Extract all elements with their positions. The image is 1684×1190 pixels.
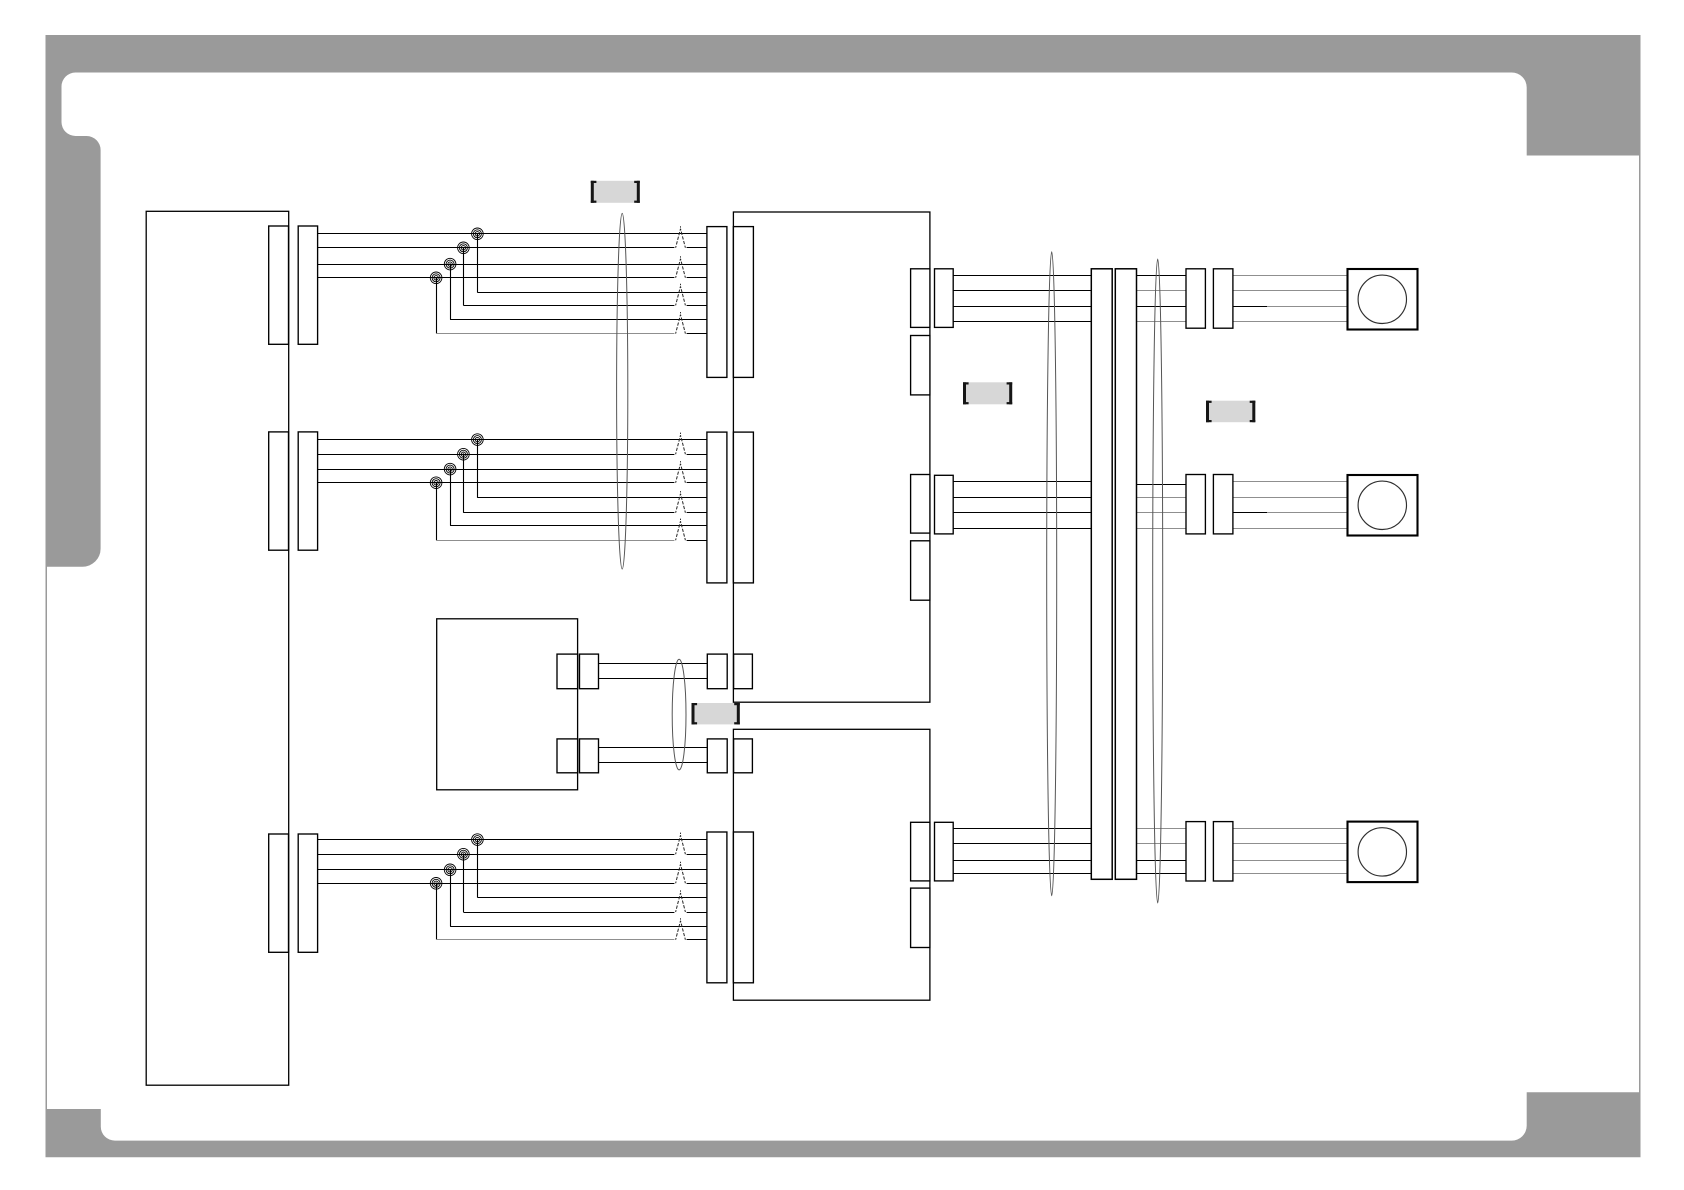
wire G1 branch drop 1 bbox=[477, 234, 479, 293]
connector R1-plug left bbox=[1186, 269, 1205, 328]
connector R2-plug right bbox=[1213, 475, 1233, 534]
connector G3A (board-side, left) bbox=[269, 834, 289, 952]
wire G1 branch drop 2 bbox=[463, 248, 465, 306]
wire R3 plug to unit row 1 bbox=[1233, 828, 1348, 830]
wire R1 bus to plug row 2 bbox=[1137, 290, 1187, 292]
wire R3 bus to plug row 3 bbox=[1137, 860, 1187, 862]
label placeholder P3 (mid-right) bbox=[1206, 401, 1255, 423]
label placeholder P4 (center) bbox=[692, 703, 740, 724]
twisted-pair mark 2 on G1 bbox=[676, 259, 686, 278]
wire G3 branch drop 1 bbox=[477, 840, 479, 898]
connector R3-plug right bbox=[1213, 822, 1233, 881]
wire R2 plug to unit row 4 bbox=[1233, 528, 1348, 530]
shield-braid coil symbol on G3 wire 2 bbox=[458, 848, 470, 860]
connector G1B (harness-side, left) bbox=[298, 226, 317, 344]
connector G1C (harness-side, right) bbox=[707, 227, 727, 378]
connector M5 on small board (lower) bbox=[557, 739, 578, 773]
wire G3 return row 1 bbox=[477, 897, 707, 899]
wire R1 to bus row 4 bbox=[953, 321, 1091, 323]
wire R2 plug to unit row 3 bbox=[1233, 512, 1267, 514]
connector G2A (board-side, left) bbox=[269, 432, 289, 550]
wire G3 row 2 bbox=[318, 854, 675, 856]
unit box with round element R3 bbox=[1348, 822, 1418, 883]
wire R2 plug to unit row 1 bbox=[1233, 481, 1348, 483]
wire R1 plug to unit row 4 bbox=[1233, 321, 1348, 323]
wire R1 plug to unit row 2 bbox=[1233, 290, 1348, 292]
wire G1 branch drop 3 bbox=[450, 264, 452, 320]
connector R3-edge inner bbox=[911, 822, 930, 881]
wire R3 to bus row 4 bbox=[953, 873, 1091, 875]
wire M upper pair line 1 bbox=[599, 663, 708, 665]
sub board lower right rectangle bbox=[733, 729, 930, 1000]
wire R2 bus to plug row 4 bbox=[1137, 528, 1187, 530]
wire G3 row 1 bbox=[318, 839, 707, 841]
wire G2 branch drop 4 bbox=[436, 483, 438, 541]
connector M2 harness side (upper) bbox=[580, 654, 599, 689]
wire R1 to bus row 1 bbox=[953, 275, 1091, 277]
wire G1 return row 3 bbox=[450, 319, 707, 321]
wire G2 branch drop 1 bbox=[477, 440, 479, 498]
connector R2-plug left bbox=[1186, 475, 1205, 534]
wire G2 row 3 bbox=[318, 469, 707, 471]
wire G2 row 1 bbox=[318, 439, 707, 441]
connector G2C (harness-side, right) bbox=[707, 432, 727, 583]
wire G2 return row 3 bbox=[450, 525, 707, 527]
wire R1 plug to unit row 3 bbox=[1233, 306, 1267, 308]
twisted-pair mark 1 on G2 bbox=[676, 435, 686, 454]
main board (left tall rectangle) bbox=[146, 211, 289, 1085]
vertical bus bar 2 bbox=[1115, 269, 1136, 880]
wire G2 return row 2 bbox=[463, 512, 674, 514]
wire R3 bus to plug row 4 bbox=[1137, 873, 1187, 875]
connector M4 board side right (upper) bbox=[734, 654, 753, 689]
twisted-pair mark 4 on G2 bbox=[676, 521, 686, 540]
wire R2 to bus row 1 bbox=[953, 481, 1091, 483]
connector M6 harness side (lower) bbox=[580, 739, 599, 773]
twisted-pair mark 1 on G3 bbox=[676, 835, 686, 854]
wire G1 row 3 bbox=[318, 264, 707, 266]
cable bundle loop (middle small) bbox=[672, 659, 686, 770]
connector R2-edge outer bbox=[935, 475, 954, 534]
twisted-pair mark 4 on G3 bbox=[676, 921, 686, 940]
wire G2 row 2 bbox=[318, 454, 675, 456]
wire R2 bus to plug row 3 bbox=[1137, 512, 1187, 514]
connector G2D (board-side, right) bbox=[733, 432, 753, 583]
unit box with round element R1 bbox=[1348, 269, 1418, 330]
wire G2 return row 4 bbox=[436, 540, 674, 542]
wire R1 to bus row 3 bbox=[953, 306, 1091, 308]
connector R1-edge inner bbox=[911, 269, 930, 328]
twisted-pair mark 2 on G2 bbox=[676, 464, 686, 483]
wire R1 bus to plug row 1 bbox=[1137, 275, 1187, 277]
shield-braid coil symbol on G3 wire 4 bbox=[430, 878, 442, 890]
spare connector below R2 bbox=[911, 541, 930, 600]
wire G1 row 1 bbox=[318, 233, 707, 235]
shield-braid coil symbol on G3 wire 1 bbox=[472, 834, 484, 846]
wire G3 row 3 bbox=[318, 869, 707, 871]
round element (lens/motor) R3 bbox=[1358, 828, 1406, 876]
cable bundle loop (right 1, tall) bbox=[1047, 252, 1057, 896]
wire G1 row 4 bbox=[318, 277, 675, 279]
wire G3 branch drop 4 bbox=[436, 883, 438, 940]
unit box with round element R2 bbox=[1348, 475, 1418, 536]
connector G3C (harness-side, right) bbox=[707, 832, 727, 983]
cable bundle loop (right 2, tall) bbox=[1153, 259, 1163, 903]
wire R1 bus to plug row 4 bbox=[1137, 321, 1187, 323]
wire R3 plug to unit row 4 bbox=[1233, 873, 1348, 875]
connector M7 harness side right (lower) bbox=[707, 739, 727, 773]
wire G2 branch drop 2 bbox=[463, 454, 465, 513]
wire G2 return row 1 bbox=[477, 497, 707, 499]
wire R2 to bus row 4 bbox=[953, 528, 1091, 530]
shield-braid coil symbol on G1 wire 3 bbox=[444, 258, 456, 270]
wire G3 return row 4 bbox=[436, 939, 674, 941]
wire R2 plug to unit row 2 bbox=[1233, 497, 1348, 499]
wire R3 plug to unit row 2 bbox=[1233, 843, 1348, 845]
twisted-pair mark 4 on G1 bbox=[676, 315, 686, 334]
connector R3-edge outer bbox=[935, 822, 954, 881]
shield-braid coil symbol on G1 wire 4 bbox=[430, 272, 442, 284]
wire R3 to bus row 2 bbox=[953, 843, 1091, 845]
wire G3 branch drop 3 bbox=[450, 870, 452, 926]
wire G1 branch drop 4 bbox=[436, 278, 438, 334]
wire R3 to bus row 3 bbox=[953, 860, 1091, 862]
shield-braid coil symbol on G2 wire 1 bbox=[472, 434, 484, 446]
wire R2 bus to plug row 1 bbox=[1137, 484, 1187, 486]
wire G1 return row 1 bbox=[477, 292, 707, 294]
wire R1 bus to plug row 3 bbox=[1137, 306, 1187, 308]
spare connector below R3 bbox=[911, 888, 930, 947]
connector R2-edge inner bbox=[911, 475, 930, 534]
twisted-pair mark 1 on G1 bbox=[676, 229, 686, 248]
shield-braid coil symbol on G1 wire 2 bbox=[458, 242, 470, 254]
wire M lower pair line 1 bbox=[599, 747, 708, 749]
wire G2 row 4 bbox=[318, 482, 675, 484]
vertical bus bar 1 bbox=[1091, 269, 1112, 880]
wire G1 row 2 bbox=[318, 247, 675, 249]
twisted-pair mark 3 on G2 bbox=[676, 494, 686, 513]
shield-braid coil symbol on G3 wire 3 bbox=[444, 864, 456, 876]
connector G2B (harness-side, left) bbox=[298, 432, 317, 550]
connector R1-edge outer bbox=[935, 269, 954, 328]
round element (lens/motor) R1 bbox=[1358, 275, 1406, 323]
connector M3 harness side right (upper) bbox=[707, 654, 727, 689]
wire R2 bus to plug row 2 bbox=[1137, 497, 1187, 499]
connector G3B (harness-side, left) bbox=[298, 834, 317, 952]
shield-braid coil symbol on G2 wire 2 bbox=[458, 448, 470, 460]
connector M8 board side right (lower) bbox=[734, 739, 753, 773]
wire R3 to bus row 1 bbox=[953, 828, 1091, 830]
wire R3 bus to plug row 2 bbox=[1137, 843, 1187, 845]
wire R3 plug to unit row 3 bbox=[1233, 860, 1348, 862]
wire G1 return row 2 bbox=[463, 305, 674, 307]
wire R2 to bus row 2 bbox=[953, 497, 1091, 499]
wire G2 branch drop 3 bbox=[450, 469, 452, 525]
twisted-pair mark 3 on G1 bbox=[676, 286, 686, 305]
wire M upper pair line 2 bbox=[599, 678, 708, 680]
shield-braid coil symbol on G2 wire 3 bbox=[444, 463, 456, 475]
connector M1 on small board (upper) bbox=[557, 654, 578, 689]
wire G3 branch drop 2 bbox=[463, 854, 465, 912]
connector R3-plug left bbox=[1186, 822, 1205, 881]
round element (lens/motor) R2 bbox=[1358, 481, 1406, 529]
twisted-pair mark 2 on G3 bbox=[676, 864, 686, 883]
wire M lower pair line 2 bbox=[599, 762, 708, 764]
label placeholder P1 (top) bbox=[591, 181, 640, 203]
wire R1 plug to unit row 1 bbox=[1233, 275, 1348, 277]
connector G3D (board-side, right) bbox=[733, 832, 753, 983]
spare connector below R1 bbox=[911, 336, 930, 395]
connector G1D (board-side, right) bbox=[733, 227, 753, 378]
connector R1-plug right bbox=[1213, 269, 1233, 328]
small middle board bbox=[437, 619, 578, 790]
connector G1A (board-side, left) bbox=[269, 226, 289, 344]
wire G3 row 4 bbox=[318, 883, 675, 885]
wire G3 return row 3 bbox=[450, 926, 707, 928]
wire G1 return row 4 bbox=[436, 333, 674, 335]
twisted-pair mark 3 on G3 bbox=[676, 893, 686, 912]
label placeholder P2 (mid-left) bbox=[963, 382, 1012, 404]
wire R1 to bus row 2 bbox=[953, 290, 1091, 292]
shield-braid coil symbol on G1 wire 1 bbox=[472, 228, 484, 240]
wire R3 bus to plug row 1 bbox=[1137, 828, 1187, 830]
wire G3 return row 2 bbox=[463, 912, 674, 914]
wire R2 to bus row 3 bbox=[953, 512, 1091, 514]
shield-braid coil symbol on G2 wire 4 bbox=[430, 477, 442, 489]
sub board upper right (middle rectangle) bbox=[733, 212, 930, 702]
cable bundle loop (left, tall) bbox=[617, 213, 628, 569]
